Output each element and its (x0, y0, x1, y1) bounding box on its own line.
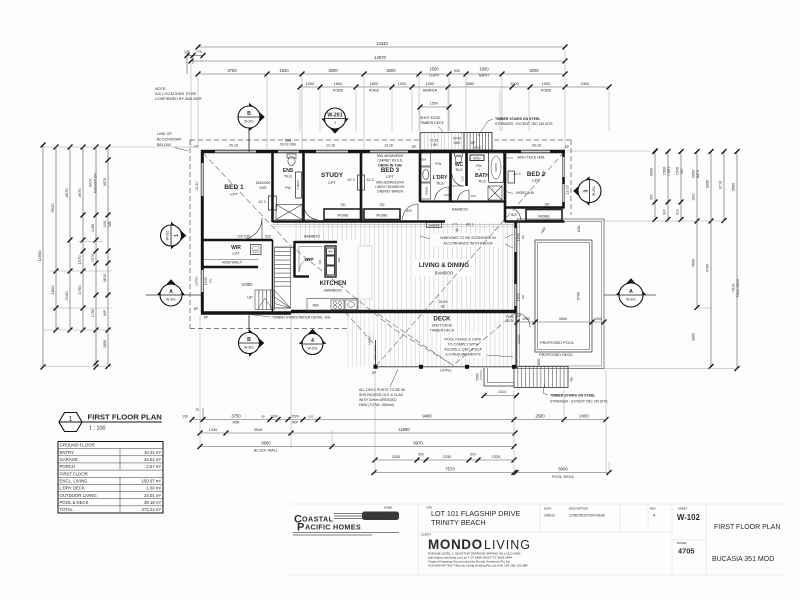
svg-text:NAME: NAME (384, 506, 392, 510)
bed2 robe (526, 210, 562, 221)
svg-text:820: 820 (511, 213, 517, 217)
svg-text:820: 820 (406, 209, 412, 213)
svg-text:W-301: W-301 (244, 345, 254, 349)
main stair treads (275, 247, 291, 308)
svg-text:ACCORDANCE WITH AS1426: ACCORDANCE WITH AS1426 (443, 242, 492, 246)
svg-text:AC 3: AC 3 (366, 178, 373, 182)
svg-text:DH: DH (521, 235, 525, 239)
svg-text:DP: DP (565, 145, 569, 149)
svg-text:900SQ SHR: 900SQ SHR (516, 191, 535, 195)
svg-text:STRINGER - EXTENT TBC ON SITE: STRINGER - EXTENT TBC ON SITE (495, 122, 553, 126)
svg-text:1000: 1000 (510, 82, 518, 86)
svg-text:WIR: WIR (233, 421, 240, 425)
svg-text:400W SHELF: 400W SHELF (222, 261, 242, 265)
svg-text:SHR: SHR (259, 186, 267, 190)
svg-text:2.57 m²: 2.57 m² (146, 464, 161, 469)
svg-text:REV: REV (650, 507, 656, 511)
upper timber deck white base (420, 132, 492, 151)
ens shower (276, 205, 302, 220)
svg-text:1620: 1620 (692, 193, 696, 201)
svg-text:1790: 1790 (77, 285, 82, 295)
svg-text:KITCHEN: KITCHEN (320, 281, 347, 287)
svg-text:7570: 7570 (445, 467, 455, 472)
svg-text:LINTEL: LINTEL (195, 276, 199, 287)
svg-text:1750: 1750 (91, 309, 95, 317)
section marker B top (248, 128, 250, 152)
top dimension row room widths (196, 67, 568, 78)
svg-text:AS1926.1, QDC & BCA: AS1926.1, QDC & BCA (444, 348, 482, 352)
svg-text:REF: REF (313, 304, 320, 308)
bed3 robe (364, 209, 400, 220)
svg-text:A: A (629, 289, 633, 295)
svg-text:FIRST FLOOR: FIRST FLOOR (60, 471, 88, 476)
svg-text:90: 90 (261, 414, 265, 418)
svg-text:10.31 m²: 10.31 m² (144, 450, 162, 455)
svg-text:CONSTRUCTION ISSUE: CONSTRUCTION ISSUE (569, 514, 605, 518)
wall bed3-ldry (419, 150, 422, 202)
wc door (452, 174, 464, 186)
svg-text:CPT: CPT (232, 252, 240, 256)
svg-text:ROBE: ROBE (333, 89, 344, 93)
bath shower (488, 186, 502, 200)
svg-text:1000: 1000 (540, 226, 547, 234)
svg-text:3000: 3000 (529, 68, 539, 73)
svg-text:1430: 1430 (209, 428, 217, 432)
svg-text:1000: 1000 (594, 317, 602, 321)
wir bottom wall (201, 266, 258, 268)
svg-text:LIVING: LIVING (484, 538, 531, 552)
svg-text:TO COMPLY WITH: TO COMPLY WITH (448, 343, 479, 347)
svg-text:6530: 6530 (50, 203, 55, 213)
svg-text:ENCL. LIVING: ENCL. LIVING (60, 478, 89, 483)
svg-text:TIMBER STAIRS ON STEEL: TIMBER STAIRS ON STEEL (550, 394, 596, 398)
svg-text:BED 1: BED 1 (224, 184, 244, 191)
svg-text:WC: WC (680, 168, 684, 174)
wall study-bed3 (360, 150, 363, 222)
svg-text:2400: 2400 (581, 82, 589, 86)
svg-text:.06-18: .06-18 (531, 144, 541, 148)
svg-text:DP: DP (517, 314, 521, 318)
svg-text:WINDOWS TO BE SCREENED IN: WINDOWS TO BE SCREENED IN (440, 236, 496, 240)
hatch mask kitchen block (292, 240, 360, 311)
svg-text:TIMBER STAIRS REFER DETAIL -S4: TIMBER STAIRS REFER DETAIL -S41 (272, 316, 331, 320)
living area floor boards hatch (296, 223, 512, 310)
svg-text:14570: 14570 (374, 55, 386, 60)
wir shelf line (203, 259, 258, 261)
right dim intermediate ticks (650, 149, 714, 342)
svg-text:CPT: CPT (328, 180, 337, 185)
svg-text:TIMBER DECK: TIMBER DECK (430, 329, 455, 333)
svg-text:+FW: +FW (435, 162, 442, 166)
svg-text:24.01 m²: 24.01 m² (144, 493, 162, 498)
svg-text:CPT: CPT (532, 178, 541, 183)
svg-text:CABINET W/ S.S.: CABINET W/ S.S. (377, 159, 403, 163)
kitchen bench bottom (307, 299, 358, 312)
bottom dim row C 6900 block wall 9970 (198, 441, 517, 453)
svg-text:DP: DP (372, 371, 376, 375)
svg-text:1520x900: 1520x900 (256, 181, 271, 185)
svg-text:70: 70 (195, 408, 199, 412)
svg-text:1180: 1180 (91, 224, 95, 232)
svg-text:2: 2 (334, 121, 336, 125)
svg-text:SHEET: SHEET (678, 507, 688, 511)
svg-text:SD: SD (380, 203, 385, 207)
svg-text:POOL & DECK: POOL & DECK (60, 500, 89, 505)
svg-text:WIP: WIP (292, 420, 298, 424)
svg-text:HWD (TOTAL 150mm): HWD (TOTAL 150mm) (359, 403, 394, 407)
sub dim 1500 ldry deck (418, 102, 452, 132)
svg-text:ACIFIC HOMES: ACIFIC HOMES (305, 523, 361, 532)
svg-text:3470: 3470 (89, 179, 93, 187)
svg-text:DECK: DECK (433, 317, 451, 323)
svg-text:4: 4 (311, 338, 314, 344)
svg-text:UP: UP (471, 141, 475, 145)
svg-text:W-201: W-201 (592, 186, 596, 196)
windows top wall (215, 150, 550, 152)
svg-text:910: 910 (676, 209, 680, 215)
svg-text:AC 3: AC 3 (347, 178, 354, 182)
svg-text:9970: 9970 (413, 441, 423, 446)
svg-text:SD: SD (441, 305, 446, 309)
wip pantry walls (295, 241, 338, 243)
svg-text:W-301: W-301 (626, 297, 636, 301)
svg-text:HAMPER: HAMPER (428, 224, 439, 228)
svg-text:3580: 3580 (466, 82, 474, 86)
svg-text:1600: 1600 (537, 358, 541, 365)
svg-text:770: 770 (196, 50, 202, 54)
wall bed1-ens (271, 150, 274, 222)
left dimension line 4670 2130 (64, 145, 73, 333)
svg-text:DH: DH (521, 295, 525, 299)
top dimension row 13340 (196, 41, 568, 50)
svg-text:ROBE: ROBE (541, 89, 552, 93)
deck step notch (484, 368, 514, 386)
pool deck boundary (517, 219, 604, 369)
svg-text:ENTRY: ENTRY (60, 450, 75, 455)
svg-text:9480: 9480 (422, 414, 432, 419)
svg-text:A: A (653, 514, 656, 518)
upper deck outline (420, 133, 464, 151)
svg-text:5700: 5700 (577, 292, 581, 300)
svg-text:W-301: W-301 (244, 119, 254, 123)
svg-text:UP: UP (247, 296, 253, 300)
svg-text:1000: 1000 (426, 82, 434, 86)
stair dim 1314 (476, 370, 520, 398)
svg-text:720 CSD: 720 CSD (237, 235, 251, 239)
svg-text:MONDO: MONDO (428, 537, 483, 552)
wall ens-study (302, 150, 305, 222)
svg-text:.05-18: .05-18 (228, 144, 238, 148)
svg-text:820: 820 (265, 235, 271, 239)
svg-text:POOL FENCE & GATE: POOL FENCE & GATE (445, 338, 483, 342)
svg-text:DESCRIPTION: DESCRIPTION (569, 507, 588, 511)
svg-text:FG: FG (209, 278, 213, 283)
svg-text:3090: 3090 (650, 168, 654, 176)
svg-text:GROUND FLOOR: GROUND FLOOR (60, 443, 95, 448)
windows living right wall (514, 228, 516, 306)
svg-text:BAMBOO: BAMBOO (452, 208, 468, 212)
svg-text:TILE: TILE (436, 182, 444, 186)
svg-text:12-30: 12-30 (195, 182, 199, 191)
svg-text:LINTEL: LINTEL (440, 369, 451, 373)
svg-text:3070: 3070 (103, 178, 107, 186)
svg-text:POOL DECK: POOL DECK (736, 278, 740, 297)
ens vanity (296, 172, 302, 198)
svg-text:25-69: 25-69 (439, 300, 448, 304)
deck edge bottom (375, 312, 516, 369)
svg-text:900Lx600Wx900H: 900Lx600Wx900H (377, 154, 404, 158)
bed3 door (403, 204, 419, 220)
svg-text:STRINGER - EXTENT TBC ON SITE: STRINGER - EXTENT TBC ON SITE (550, 400, 608, 404)
svg-text:4610: 4610 (103, 274, 107, 282)
svg-text:WIP: WIP (103, 310, 107, 316)
svg-text:CONFIRMED BY BUILDER: CONFIRMED BY BUILDER (155, 97, 202, 101)
hamper (427, 223, 442, 228)
top dimension row 14570 (189, 55, 568, 64)
ac3 unit on wall (358, 175, 365, 190)
svg-text:1314: 1314 (498, 390, 506, 394)
svg-text:WB: WB (108, 221, 112, 226)
svg-text:18-09: 18-09 (517, 293, 521, 301)
bed2 door (506, 207, 521, 222)
svg-text:BUCASIA 351 MOD: BUCASIA 351 MOD (712, 556, 774, 563)
svg-text:LIVING & DINING: LIVING & DINING (419, 262, 469, 269)
svg-text:3540: 3540 (254, 428, 262, 432)
living right wall (514, 222, 517, 313)
svg-text:BAMBOO: BAMBOO (435, 271, 454, 276)
wir top wall (201, 239, 273, 242)
bottom dim extension verticals (192, 316, 609, 474)
svg-text:OBS: OBS (454, 141, 461, 145)
wall wc-bath (465, 150, 468, 186)
svg-text:18-49: 18-49 (517, 233, 521, 241)
svg-text:1570: 1570 (91, 254, 95, 262)
svg-text:VOID: VOID (241, 282, 253, 287)
svg-text:UP: UP (569, 376, 575, 383)
svg-text:TILE: TILE (478, 180, 486, 184)
wall ldry-wc (449, 150, 452, 202)
svg-text:39.18 m²: 39.18 m² (144, 500, 162, 505)
svg-text:TIMBER DECK: TIMBER DECK (420, 121, 445, 125)
svg-text:L'DRY DECK: L'DRY DECK (60, 486, 85, 491)
svg-text:B: B (247, 111, 251, 117)
svg-text:1500: 1500 (663, 167, 667, 175)
section marker A left (146, 294, 201, 296)
svg-text:PROPOSED DECK: PROPOSED DECK (539, 352, 573, 357)
svg-text:3560: 3560 (732, 183, 736, 191)
svg-text:1800: 1800 (50, 285, 55, 295)
area table (58, 442, 163, 514)
lower stair flight vertical risers (255, 290, 275, 310)
right dim verticals room heights (650, 149, 741, 371)
svg-text:SHOT EDGE: SHOT EDGE (431, 324, 453, 328)
svg-text:B: B (247, 337, 251, 343)
svg-text:4690: 4690 (692, 259, 696, 267)
svg-text:620: 620 (309, 414, 314, 418)
svg-text:ROBE: ROBE (369, 89, 380, 93)
wc toilet (455, 153, 463, 157)
svg-text:12-19: 12-19 (566, 186, 570, 195)
svg-text:GARAGE: GARAGE (60, 457, 79, 462)
wall bath-bed2 (504, 150, 507, 222)
svg-text:2320: 2320 (392, 455, 400, 459)
svg-text:DROP-IN TUB: DROP-IN TUB (378, 164, 402, 168)
svg-text:TRINITY BEACH: TRINITY BEACH (431, 518, 486, 527)
svg-text:6900: 6900 (261, 441, 271, 446)
svg-text:ROBE: ROBE (538, 214, 550, 219)
svg-text:DP: DP (194, 307, 198, 311)
svg-text:4705: 4705 (678, 547, 694, 556)
svg-text:500: 500 (418, 453, 424, 457)
windows bed2 right wall (562, 157, 564, 202)
svg-text:2000: 2000 (692, 170, 696, 178)
right dim extension lines (567, 151, 737, 369)
pool deck stairs bottom (514, 367, 568, 388)
section marker 4 bottom (299, 329, 326, 344)
svg-text:LINEN C'BOARD BY: LINEN C'BOARD BY (375, 185, 406, 189)
top rooms bottom wall (273, 220, 446, 223)
svg-text:3750: 3750 (231, 414, 241, 419)
svg-text:LINTEL: LINTEL (517, 334, 521, 345)
svg-text:BED 2: BED 2 (527, 171, 546, 178)
svg-text:4760: 4760 (706, 264, 710, 272)
title block frame (290, 504, 786, 575)
svg-text:1528 B: 1528 B (494, 163, 498, 172)
svg-text:1300: 1300 (270, 414, 278, 418)
svg-text:PROPOSED POOL: PROPOSED POOL (540, 340, 575, 345)
svg-text:3000: 3000 (386, 68, 396, 73)
svg-text:SD: SD (341, 203, 346, 207)
proposed pool (535, 240, 592, 352)
svg-text:720: 720 (318, 259, 322, 264)
svg-text:LOT 101 FLAGSHIP DRIVE: LOT 101 FLAGSHIP DRIVE (431, 509, 520, 518)
svg-text:ENS: ENS (283, 168, 294, 174)
svg-text:EVES/STUDY: EVES/STUDY (94, 172, 98, 193)
svg-text:BED 3: BED 3 (381, 167, 400, 174)
windows left wall (201, 163, 203, 292)
svg-text:CPT: CPT (230, 192, 239, 197)
svg-text:7910: 7910 (732, 284, 736, 292)
section marker 3 right (573, 176, 589, 205)
svg-text:2850: 2850 (103, 340, 107, 348)
upper stairs treads (464, 133, 492, 151)
svg-text:RW: RW (328, 250, 333, 254)
svg-text:1900: 1900 (479, 67, 489, 72)
svg-text:4670: 4670 (64, 188, 69, 198)
left dimension line 3000 1090 4610 2850 (103, 145, 112, 370)
svg-text:MODEL: MODEL (677, 541, 687, 545)
svg-text:BAMBOO: BAMBOO (304, 235, 320, 239)
svg-text:1500: 1500 (429, 67, 439, 72)
svg-text:1000: 1000 (306, 82, 314, 86)
bath tub (489, 153, 504, 183)
svg-text:1 : 100: 1 : 100 (89, 426, 106, 432)
bed1 door (240, 218, 262, 240)
svg-text:1570: 1570 (77, 255, 82, 265)
svg-text:DP: DP (194, 145, 198, 149)
svg-text:.12-18: .12-18 (325, 144, 335, 148)
svg-text:AC 4: AC 4 (513, 172, 520, 176)
svg-text:600H TILED HOB: 600H TILED HOB (518, 156, 546, 160)
bath vanity 900V (470, 155, 484, 161)
svg-text:A: A (169, 289, 173, 295)
svg-text:1800: 1800 (370, 82, 378, 86)
svg-text:2320: 2320 (492, 455, 500, 459)
svg-text:L:50: L:50 (431, 143, 437, 147)
svg-text:AC 1: AC 1 (466, 223, 474, 227)
left dim extension lines (40, 147, 196, 367)
kitchen door arc (299, 258, 313, 272)
svg-text:WIR: WIR (231, 245, 241, 251)
svg-text:3000: 3000 (559, 317, 567, 321)
svg-text:1090: 1090 (103, 220, 107, 228)
first floor plan title hexagon (59, 413, 82, 432)
svg-text:DATE: DATE (544, 507, 551, 511)
svg-text:900: 900 (337, 257, 341, 262)
svg-text:500: 500 (470, 453, 476, 457)
svg-text:3000: 3000 (328, 68, 338, 73)
upper timber deck hatch (421, 133, 462, 150)
svg-text:2330: 2330 (443, 455, 451, 459)
svg-text:11600: 11600 (37, 250, 42, 262)
stair winder treads (275, 291, 291, 309)
section marker A right (604, 294, 619, 296)
svg-text:5300: 5300 (476, 373, 480, 380)
svg-text:+: + (478, 168, 480, 172)
svg-text:FW: FW (285, 186, 291, 190)
svg-text:272.24 m²: 272.24 m² (142, 507, 162, 512)
svg-text:LINEN: LINEN (425, 187, 429, 196)
svg-text:1900: 1900 (542, 82, 550, 86)
svg-text:WITH 32mm DRESSED: WITH 32mm DRESSED (359, 398, 397, 402)
svg-text:15-09: 15-09 (204, 277, 208, 285)
svg-text:1: 1 (174, 234, 180, 237)
svg-text:CPT: CPT (386, 174, 395, 179)
svg-text:900Lx600Wx2100H: 900Lx600Wx2100H (376, 181, 405, 185)
svg-text:AC 2: AC 2 (258, 200, 265, 204)
svg-text:OUTDOOR LIVING: OUTDOOR LIVING (60, 493, 98, 498)
svg-text:11690: 11690 (398, 427, 410, 432)
svg-text:L'DRY: L'DRY (429, 74, 440, 78)
svg-text:W-201: W-201 (308, 346, 318, 350)
svg-text:CABINET MAKER: CABINET MAKER (377, 190, 404, 194)
roof valley dashed diagonals (203, 152, 564, 367)
svg-text:1540: 1540 (676, 167, 680, 175)
svg-text:09-13 OBS: 09-13 OBS (280, 143, 296, 147)
corridor lower edge lines (273, 223, 516, 225)
svg-text:1.60 m²: 1.60 m² (146, 486, 161, 491)
svg-text:DP: DP (204, 316, 208, 320)
study robe (324, 209, 362, 220)
svg-text:1800: 1800 (334, 82, 342, 86)
svg-text:ROBE: ROBE (337, 213, 349, 218)
svg-text:130: 130 (182, 415, 188, 419)
svg-text:PORCH: PORCH (60, 464, 76, 469)
ldry door (435, 187, 450, 202)
kitchen appliance band (325, 246, 336, 277)
left dimension line 3470 1180 1570 1750 (89, 145, 99, 370)
svg-text:P: P (297, 522, 304, 534)
svg-text:720: 720 (443, 193, 448, 197)
svg-text:ROBE: ROBE (376, 213, 388, 218)
section marker B bottom (248, 315, 250, 332)
svg-text:4670: 4670 (77, 188, 82, 198)
svg-text:LINE OF: LINE OF (157, 132, 172, 136)
svg-text:GATE: GATE (506, 319, 514, 323)
svg-text:900: 900 (663, 209, 667, 215)
svg-text:A 900V: A 900V (296, 180, 300, 190)
svg-text:SHS PACKED OUT & CLAD: SHS PACKED OUT & CLAD (359, 393, 404, 397)
